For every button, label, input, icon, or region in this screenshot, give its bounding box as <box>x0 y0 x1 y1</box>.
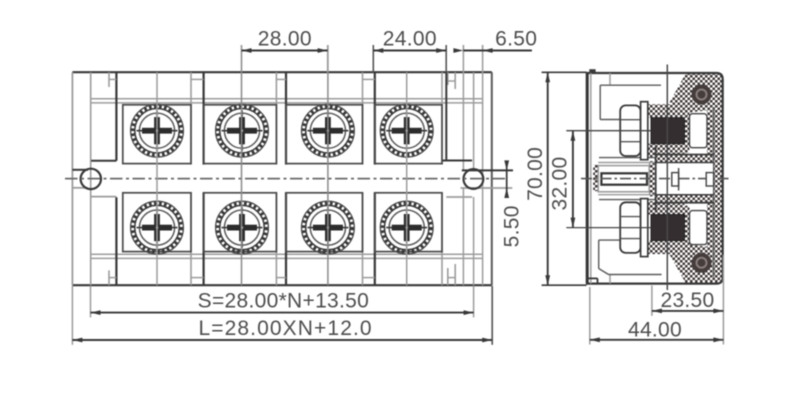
dimension 6.50 <box>453 28 537 53</box>
dimension 44.00 <box>590 287 724 345</box>
screw axis vertical centerline <box>666 65 668 291</box>
hatched body: top-right corner block <box>670 73 723 155</box>
svg-text:L=28.00XN+12.0: L=28.00XN+12.0 <box>198 317 372 340</box>
hatched body: filler right of windows <box>707 108 714 155</box>
screw S2 phillips head <box>216 104 269 157</box>
dimension S=28.00*N+13.50 <box>91 286 474 318</box>
hatched body: around clamp screw (c=227.6) <box>648 201 685 215</box>
screw assembly lower: axis line <box>566 227 651 229</box>
dimension 28.00 <box>242 28 328 73</box>
screw assembly upper: threaded stud <box>651 118 685 144</box>
terminal cell recess square pos3 <box>286 105 363 164</box>
screw S7 phillips head <box>302 201 355 254</box>
front view: terminal block outer housing <box>72 72 491 285</box>
wire: left end wall line <box>90 72 92 285</box>
barrier wall B1 <box>109 72 116 285</box>
center fixing slot inner (screw hole) <box>601 173 647 184</box>
wire: inner wall edge of right band <box>713 107 715 277</box>
node: column 2 centerline <box>241 45 243 285</box>
mounting hole bottom-right (section) <box>692 253 712 273</box>
screw S4 phillips head <box>380 104 433 157</box>
screw assembly upper: relief window <box>690 114 708 148</box>
side view outline <box>586 73 723 284</box>
screw S6 phillips head <box>216 201 269 254</box>
terminal cell recess square pos5 <box>123 193 191 252</box>
screw S1 phillips head <box>131 104 184 157</box>
centerline horizontal (front view) <box>65 178 508 180</box>
terminal cell recess square pos1 <box>123 105 191 164</box>
side view left mounting wall <box>586 69 598 283</box>
wire: mid partition dark lines <box>655 146 714 212</box>
hatched body: around clamp screw (c=130.7) <box>648 104 685 118</box>
node: center tab left <box>672 168 679 191</box>
screw assembly lower: threaded stud <box>651 215 685 241</box>
barrier wall B4 <box>363 72 375 285</box>
node: column 3 centerline <box>327 45 329 285</box>
hatched body: bottom-right corner block <box>670 202 723 284</box>
svg-text:24.00: 24.00 <box>383 28 437 51</box>
svg-text:32.00: 32.00 <box>549 156 572 210</box>
dimension 70.00 <box>524 72 587 285</box>
terminal cell recess square pos8 <box>375 193 442 252</box>
dimension 23.50 <box>652 255 724 345</box>
dimension 32.00 <box>549 131 576 228</box>
mounting hole top-right (section) <box>692 85 712 105</box>
svg-text:5.50: 5.50 <box>501 205 524 247</box>
barrier wall B5 (right end) <box>442 72 455 285</box>
node: column 4 centerline <box>406 72 408 285</box>
screw assembly upper: washer plate <box>641 102 648 160</box>
svg-text:6.50: 6.50 <box>495 28 537 51</box>
hatched body: slot left bar <box>593 165 598 191</box>
wire: housing top face lines <box>91 99 482 103</box>
wire: right end panel lines <box>463 45 482 285</box>
dimension 5.50 <box>501 160 524 247</box>
screw assembly upper: hex head <box>620 105 640 156</box>
screw S5 phillips head <box>131 201 184 254</box>
svg-text:S=28.00*N+13.50: S=28.00*N+13.50 <box>198 290 369 313</box>
svg-text:44.00: 44.00 <box>628 319 682 342</box>
wire: housing bottom face lines <box>91 254 482 258</box>
dimension L=28.00XN+12.0 <box>72 286 492 345</box>
node: left mounting ear cutout <box>72 0 446 197</box>
dimension 24.00 <box>373 28 446 73</box>
node: column 1 centerline <box>156 72 158 285</box>
barrier wall B3 <box>276 72 286 285</box>
hatched body: right edge band <box>714 150 723 254</box>
hatched body: slot right bar <box>649 161 655 197</box>
node: right mounting ear cutout <box>442 72 513 197</box>
svg-text:28.00: 28.00 <box>258 28 312 51</box>
wire: upper chamber outline <box>598 73 661 163</box>
screw assembly lower: washer plate <box>641 199 648 257</box>
hole: right mounting ear circle <box>464 169 484 189</box>
svg-text:70.00: 70.00 <box>524 147 547 201</box>
screw S3 phillips head <box>302 104 355 157</box>
terminal cell recess square pos4 <box>375 105 442 164</box>
screw assembly lower: hex head <box>620 202 640 253</box>
barrier wall B2 <box>191 72 204 285</box>
screw S8 phillips head <box>380 201 433 254</box>
screw assembly lower: relief window <box>690 211 708 245</box>
terminal cell recess square pos7 <box>286 193 363 252</box>
center fixing slot outer <box>598 166 649 192</box>
screw assembly upper: axis line <box>566 130 651 132</box>
svg-text:23.50: 23.50 <box>660 289 714 312</box>
terminal cell recess square pos6 <box>204 193 277 252</box>
wire: lower chamber outline <box>598 195 661 284</box>
centerline horizontal (side view) <box>581 178 729 180</box>
hole: left mounting ear circle <box>81 169 101 189</box>
terminal cell recess square pos2 <box>204 105 277 164</box>
hatched body: mid horizontal bands <box>655 155 714 163</box>
node: center tab right <box>706 173 713 186</box>
